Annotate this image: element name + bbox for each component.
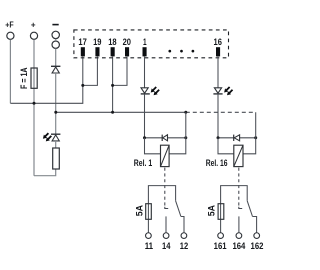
ellipsis dots bbox=[168, 50, 194, 53]
wire terminal 11 leg bbox=[147, 204, 149, 233]
svg-text:11: 11 bbox=[145, 241, 154, 252]
fuse 5A relay 16 bbox=[218, 204, 224, 220]
wire − column bbox=[55, 39, 57, 41]
terminal 14 bbox=[163, 233, 169, 239]
terminal 11 bbox=[146, 233, 152, 239]
fuse F = 1A bbox=[31, 68, 37, 88]
wire coil1 left feed bbox=[145, 138, 161, 154]
wire +F column bbox=[9, 40, 11, 104]
node − bbox=[52, 24, 58, 26]
wire pin 20 bbox=[113, 57, 127, 86]
mechanical link relay 16 bbox=[238, 168, 240, 206]
svg-text:+: + bbox=[31, 20, 36, 29]
wire pin 18 bbox=[112, 57, 114, 113]
svg-text:1: 1 bbox=[143, 37, 147, 48]
contact blade relay 1 bbox=[176, 201, 181, 217]
junction dot relay1 right bbox=[184, 136, 187, 139]
wire coil16 left feed bbox=[218, 138, 234, 154]
wire terminal 161 leg bbox=[220, 204, 222, 233]
LED channel 16 bbox=[213, 85, 234, 96]
freewheel diode line relay 1 bbox=[145, 137, 186, 139]
wire LED1 to coil bbox=[144, 94, 146, 138]
terminal 162 bbox=[254, 233, 260, 239]
terminal − lower bbox=[52, 41, 59, 48]
resistor R1 bbox=[53, 148, 60, 169]
wire LED to resistor bbox=[55, 141, 57, 148]
wire coil16 right feed bbox=[243, 112, 256, 154]
svg-text:Rel. 1: Rel. 1 bbox=[134, 158, 153, 169]
fuse 5A relay 1 bbox=[146, 204, 152, 220]
svg-text:+F: +F bbox=[5, 20, 13, 29]
wire − to rail B bbox=[55, 73, 57, 112]
svg-text:18: 18 bbox=[108, 37, 117, 48]
junction dot 18/20 bbox=[111, 84, 114, 87]
LED D2 status bbox=[41, 132, 60, 143]
freewheel diode relay 16 bbox=[234, 135, 240, 141]
pin 18 bbox=[111, 47, 115, 56]
junction dot relay16 right bbox=[254, 136, 257, 139]
terminal 164 bbox=[236, 233, 242, 239]
freewheel diode relay 1 bbox=[162, 135, 167, 141]
LED channel 1 bbox=[141, 85, 161, 96]
contact bar relay 1 bbox=[148, 186, 175, 204]
terminal 12 bbox=[181, 233, 187, 239]
svg-text:16: 16 bbox=[214, 37, 222, 48]
terminal + bbox=[30, 32, 37, 39]
wire coil1 right feed bbox=[169, 112, 186, 154]
freewheel diode line relay 16 bbox=[218, 137, 256, 139]
pin 19 bbox=[95, 47, 99, 56]
pin 16 bbox=[216, 47, 220, 56]
wire terminal 14 stub bbox=[165, 216, 167, 232]
wire + loop bottom bbox=[34, 169, 56, 176]
wire pin 1 bbox=[144, 57, 146, 88]
svg-text:12: 12 bbox=[180, 241, 188, 252]
junction dot 18 rail bbox=[111, 111, 114, 114]
junction dot − rail bbox=[54, 111, 57, 114]
wire terminal 164 stub bbox=[238, 216, 240, 232]
terminal 161 bbox=[218, 233, 224, 239]
rail B (− rail) bbox=[56, 111, 186, 113]
svg-text:161: 161 bbox=[214, 241, 227, 252]
wire terminal 162 bbox=[253, 217, 257, 233]
junction dot + on rail A bbox=[33, 102, 36, 105]
svg-text:14: 14 bbox=[162, 241, 171, 252]
svg-text:F = 1A: F = 1A bbox=[18, 67, 29, 89]
rail B dashed continuation bbox=[186, 111, 256, 113]
relay coil Rel. 16 bbox=[234, 145, 243, 166]
svg-text:Rel. 16: Rel. 16 bbox=[206, 158, 228, 169]
contact blade relay 16 bbox=[247, 201, 252, 217]
wire + column bbox=[33, 40, 35, 176]
terminal − upper bbox=[52, 31, 59, 38]
junction dot relay16 left bbox=[217, 136, 220, 139]
rail A (+F rail) bbox=[10, 57, 82, 104]
pin 17 bbox=[81, 47, 85, 56]
junction dot relay1 rail bbox=[184, 111, 187, 114]
pin 1 bbox=[143, 47, 147, 56]
contact bar relay 16 bbox=[221, 186, 248, 204]
wire pin 19 bbox=[83, 57, 98, 86]
svg-text:5A: 5A bbox=[206, 205, 217, 217]
junction dot relay1 left bbox=[143, 136, 146, 139]
svg-text:20: 20 bbox=[123, 37, 131, 48]
wire terminal 12 bbox=[181, 217, 184, 233]
junction dot 17/19 bbox=[81, 84, 84, 87]
mechanical link relay 1 bbox=[164, 168, 166, 206]
pin 20 bbox=[125, 47, 129, 56]
wire LED16 to coil bbox=[217, 94, 219, 138]
svg-text:162: 162 bbox=[251, 241, 264, 252]
svg-text:5A: 5A bbox=[133, 205, 144, 217]
relay coil Rel. 1 bbox=[161, 145, 170, 166]
terminal +F bbox=[7, 32, 14, 39]
wire pin 16 bbox=[217, 57, 219, 88]
svg-text:164: 164 bbox=[232, 241, 245, 252]
diode D1 reverse protection bbox=[51, 66, 60, 73]
svg-text:17: 17 bbox=[78, 37, 86, 48]
input connector dashed box bbox=[74, 30, 229, 58]
wire − to LED bbox=[55, 112, 57, 134]
svg-text:19: 19 bbox=[93, 37, 101, 48]
